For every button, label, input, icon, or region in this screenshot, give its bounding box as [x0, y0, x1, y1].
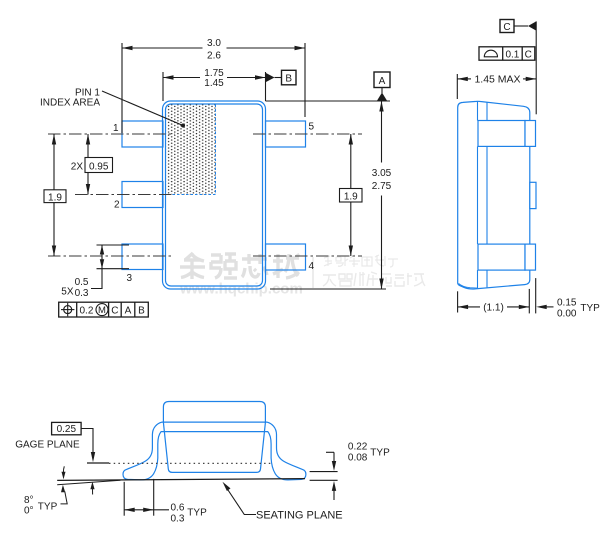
svg-text:A: A — [125, 305, 132, 316]
pin 1 index area (stipple) — [166, 105, 215, 195]
pin 3 — [122, 244, 163, 270]
svg-text:1.45: 1.45 — [204, 78, 224, 89]
svg-text:0.95: 0.95 — [89, 161, 109, 172]
svg-text:M: M — [98, 305, 106, 316]
side view lead edge lines — [478, 101, 488, 288]
svg-text:2: 2 — [114, 200, 120, 211]
svg-text:C: C — [525, 50, 532, 61]
centerline pin3/pin4 — [48, 255, 362, 257]
svg-text:0.3: 0.3 — [171, 513, 185, 524]
svg-text:3: 3 — [127, 273, 133, 284]
feature control frame profile 0.1 C — [479, 47, 535, 60]
svg-text:C: C — [503, 22, 510, 33]
svg-text:TYP: TYP — [187, 507, 207, 518]
SEATING PLANE label and leader — [223, 482, 343, 522]
svg-text:0.15: 0.15 — [557, 297, 577, 308]
svg-text:TYP: TYP — [38, 501, 58, 512]
svg-text:2X: 2X — [71, 161, 84, 172]
svg-text:2.75: 2.75 — [372, 181, 392, 192]
dimension 0.15/0.00 TYP — [536, 278, 554, 313]
pin 1 — [122, 121, 163, 147]
pin 2 — [122, 182, 163, 208]
svg-text:0.22: 0.22 — [348, 441, 368, 452]
datum B — [266, 70, 297, 85]
pin 5 — [266, 121, 306, 147]
dimension 1.45 MAX — [457, 74, 536, 99]
package body top view — [163, 101, 266, 289]
svg-text:1.45 MAX: 1.45 MAX — [474, 74, 520, 86]
svg-text:C: C — [111, 305, 118, 316]
svg-text:1.9: 1.9 — [344, 191, 358, 202]
big watermark glyphs (hua qiang xin cheng) — [180, 253, 299, 279]
dimension 0.25 gage plane — [52, 422, 96, 462]
dimension 3.05/2.75 — [270, 101, 386, 289]
svg-text:3.05: 3.05 — [372, 168, 392, 179]
centerline pin2 — [75, 194, 171, 196]
lead angle line — [57, 480, 120, 484]
dimension 0.22/0.08 TYP — [310, 452, 338, 500]
dimension 1.75/1.45 — [163, 72, 266, 101]
svg-text:A: A — [379, 76, 386, 87]
side view mold parting line bottom — [459, 284, 478, 289]
dimension 2X 0.95 — [85, 134, 113, 195]
svg-text:5: 5 — [309, 122, 315, 133]
dimension 3.0/2.6 — [122, 43, 305, 133]
svg-text:0.6: 0.6 — [171, 502, 185, 513]
feature control frame position 0.2 M C A B — [59, 302, 149, 317]
svg-text:0.2: 0.2 — [80, 305, 94, 316]
svg-text:5X: 5X — [61, 286, 74, 297]
gage plane dotted line — [109, 462, 272, 464]
dimension 5X 0.5/0.3 — [91, 245, 129, 289]
svg-text:B: B — [285, 73, 292, 84]
dimension (1.1) — [458, 289, 530, 314]
svg-text:2.6: 2.6 — [207, 51, 221, 62]
svg-text:1: 1 — [113, 123, 119, 134]
gage plane solid segment — [87, 462, 109, 464]
side view body — [458, 101, 530, 289]
angle dimension 8/0 TYP — [24, 466, 95, 516]
seating plane line — [57, 479, 305, 481]
leader to index area — [102, 91, 183, 126]
small watermark glyph rows — [324, 255, 398, 267]
svg-text:TYP: TYP — [370, 448, 390, 459]
svg-text:0.25: 0.25 — [57, 424, 77, 435]
front view body taper and bottom — [163, 423, 265, 473]
svg-text:0.00: 0.00 — [557, 308, 577, 319]
svg-text:0.3: 0.3 — [75, 288, 89, 299]
dimension 0.6/0.3 TYP — [124, 479, 169, 516]
svg-text:(1.1): (1.1) — [483, 303, 504, 314]
dimension 1.9 left — [44, 134, 66, 256]
pin 4 — [266, 244, 306, 270]
dimension 1.9 right — [340, 134, 363, 256]
svg-text:0.08: 0.08 — [348, 452, 368, 463]
svg-text:0.5: 0.5 — [75, 277, 89, 288]
svg-text:SEATING PLANE: SEATING PLANE — [256, 510, 343, 522]
svg-text:4: 4 — [309, 261, 315, 272]
side view top lead — [478, 121, 536, 147]
datum C — [500, 20, 536, 34]
datum A — [266, 72, 391, 101]
svg-text:8°: 8° — [24, 495, 34, 506]
svg-text:0.1: 0.1 — [505, 50, 519, 61]
svg-text:3.0: 3.0 — [207, 38, 221, 49]
front view leads outline — [123, 422, 306, 480]
svg-text:TYP: TYP — [580, 303, 600, 314]
svg-text:1.9: 1.9 — [48, 192, 62, 203]
watermark — [179, 253, 425, 298]
centerline pin1/pin5 — [48, 133, 362, 135]
datum C extension line — [535, 21, 537, 114]
side view bottom lead — [478, 244, 536, 270]
svg-text:0°: 0° — [24, 506, 34, 517]
svg-text:INDEX AREA: INDEX AREA — [40, 98, 100, 109]
svg-text:GAGE PLANE: GAGE PLANE — [15, 439, 80, 450]
front view package top outline — [163, 402, 265, 424]
side view middle pin stub — [530, 182, 536, 208]
svg-text:B: B — [138, 305, 145, 316]
